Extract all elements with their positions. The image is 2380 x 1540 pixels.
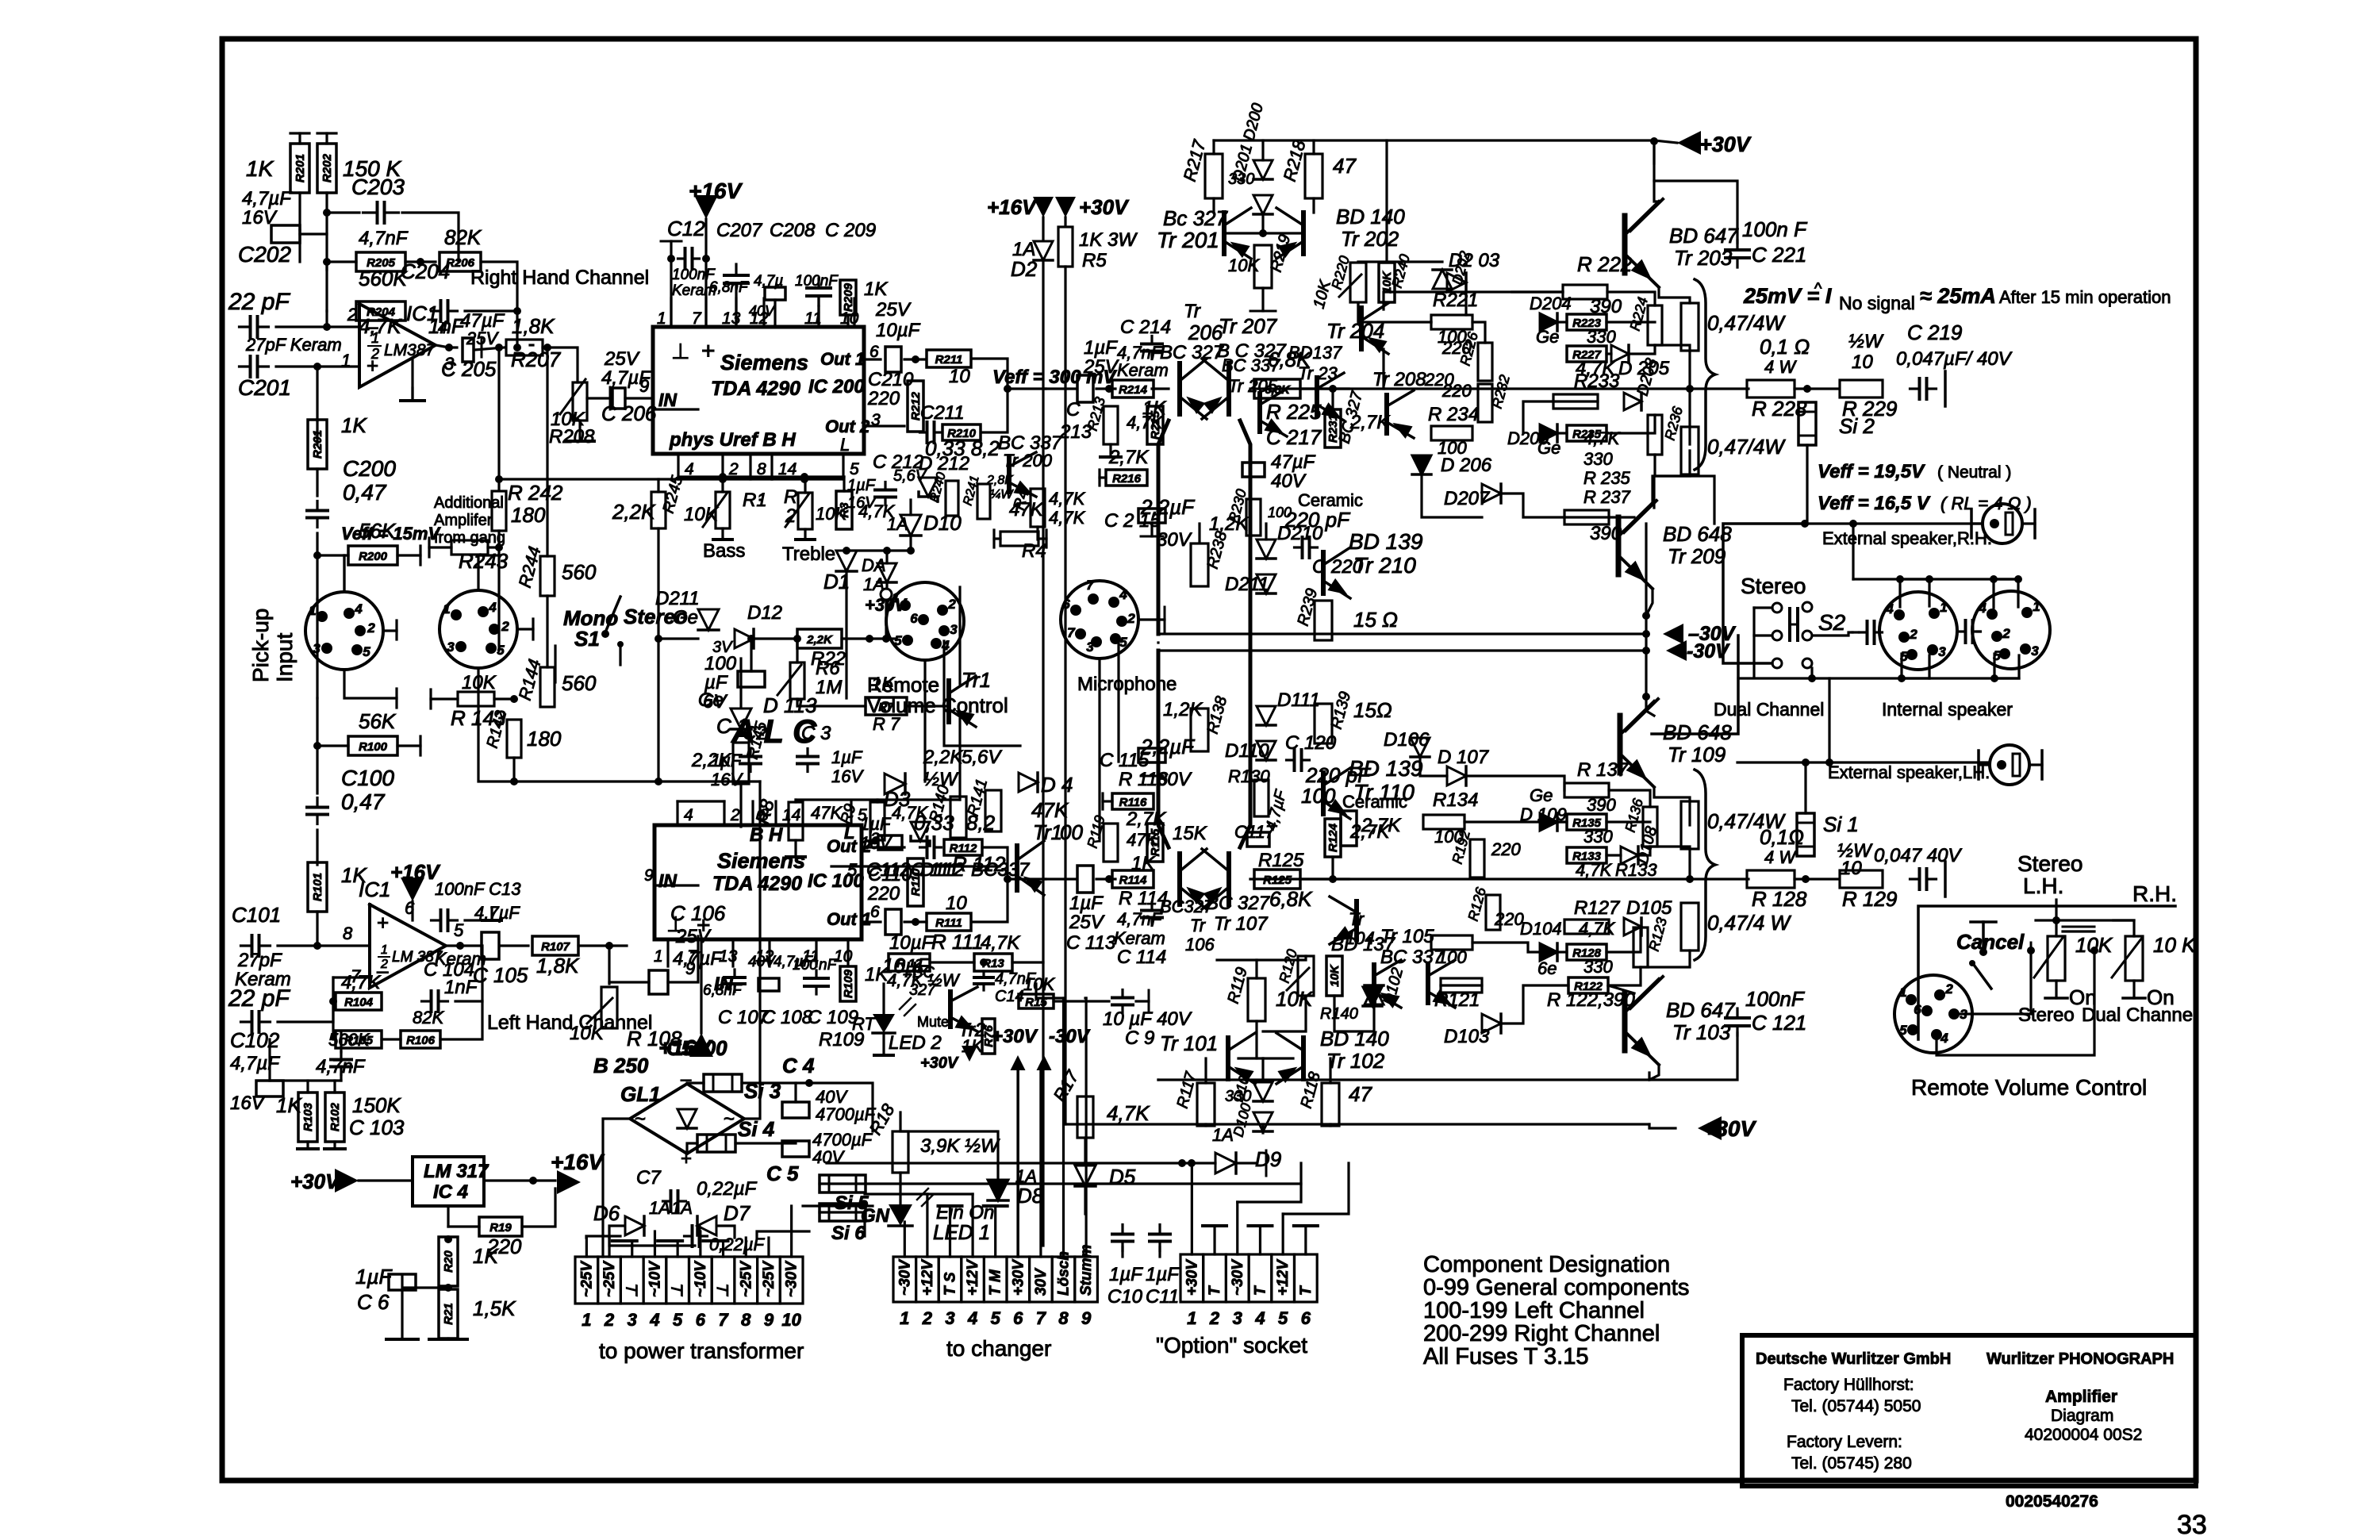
- label On R: [2147, 985, 2175, 1009]
- wire tr202 base: [1312, 198, 1315, 213]
- label 82 112: [966, 811, 996, 835]
- wire R204 left vert: [325, 311, 328, 327]
- diode D9: [1215, 1153, 1236, 1173]
- wire tr210 wires: [1265, 524, 1267, 540]
- label 1K r109: [865, 964, 889, 985]
- label L 200: [840, 435, 850, 455]
- svg-text:7: 7: [687, 947, 697, 966]
- label C203: [351, 175, 405, 199]
- svg-text:R109: R109: [842, 969, 855, 998]
- power -30V b: [1666, 640, 1687, 661]
- label R243: [459, 549, 509, 573]
- label 47K r8: [811, 803, 843, 823]
- svg-text:~: ~: [724, 1108, 735, 1130]
- svg-text:7: 7: [1086, 578, 1095, 593]
- svg-text:4: 4: [941, 638, 950, 653]
- wire tr204 e: [1382, 349, 1384, 389]
- svg-text:2: 2: [947, 597, 956, 612]
- svg-text:+: +: [701, 338, 716, 364]
- connector internal speaker B: [1972, 591, 2050, 669]
- label IC100 pinb 1: [654, 947, 663, 966]
- svg-text:4: 4: [967, 1308, 977, 1328]
- IC200 plus sym: [701, 338, 716, 364]
- wire d1 down: [845, 571, 847, 698]
- wire col to C100: [316, 746, 318, 793]
- label 47K half w: [887, 970, 961, 990]
- label R229 t: [1842, 397, 1897, 421]
- label 100nF 221: [1742, 217, 1808, 241]
- wire power strip stub 6: [699, 1231, 701, 1257]
- label 100 134: [1434, 827, 1464, 847]
- wire lh mid rail: [1157, 1078, 1159, 1081]
- capacitor C6: [389, 1274, 416, 1290]
- junction lh spk: [1825, 758, 1833, 766]
- wire pickup top: [343, 555, 345, 592]
- wire r116 tick: [1103, 800, 1112, 802]
- ground R208 pot: [566, 440, 594, 443]
- svg-text:Siemens: Siemens: [720, 351, 808, 374]
- label C10 1uF: [1109, 1264, 1143, 1285]
- svg-text:R201: R201: [311, 430, 324, 459]
- label C211: [920, 402, 965, 424]
- resistor R119b: [1104, 824, 1118, 862]
- svg-text:0,47/4W: 0,47/4W: [1707, 435, 1786, 459]
- svg-text:R243: R243: [459, 549, 509, 573]
- junction r2 bus: [800, 473, 808, 481]
- resistor R235: [1567, 425, 1606, 441]
- label Tr103: [1672, 1020, 1731, 1044]
- wire mic out: [1138, 618, 1165, 620]
- svg-text:C 5: C 5: [766, 1162, 799, 1185]
- resistor R7: [866, 697, 907, 715]
- wire d4 chain: [885, 551, 888, 563]
- svg-text:GL1: GL1: [620, 1082, 661, 1106]
- svg-text:10 K: 10 K: [2153, 933, 2197, 957]
- wire changer strip stub 4: [971, 1194, 973, 1257]
- label C101: [232, 903, 281, 927]
- label 1K r214: [1142, 397, 1166, 419]
- diode D204: [1540, 313, 1557, 331]
- ground R102: [324, 1147, 345, 1150]
- label R100 56K: [359, 709, 397, 733]
- label BC337 105: [1380, 947, 1445, 968]
- label IC200 pin 10: [840, 309, 859, 328]
- label R2b: [785, 505, 796, 527]
- resistor R244: [540, 556, 555, 596]
- svg-text:R201: R201: [294, 154, 307, 182]
- svg-text:330: 330: [1587, 327, 1616, 347]
- wire r112 right: [982, 847, 1008, 879]
- label Si1: [1823, 812, 1859, 836]
- label C220: [1312, 556, 1364, 578]
- resistor R107: [532, 936, 578, 955]
- label R202 value: [343, 156, 401, 181]
- label C114: [1117, 947, 1166, 968]
- label Tr202 t: [1341, 227, 1399, 251]
- label BD647 203: [1669, 224, 1739, 248]
- svg-text:9: 9: [644, 866, 654, 885]
- svg-text:47: 47: [1333, 154, 1357, 178]
- label Veff 15mV: [341, 524, 441, 543]
- tick R216: [1098, 470, 1100, 486]
- wire R102 bot: [333, 1142, 336, 1149]
- label R112 t: [952, 852, 1006, 876]
- wire spk B pins bot: [1994, 654, 2019, 678]
- wire R101 down: [316, 912, 318, 946]
- diode D207: [1482, 484, 1501, 503]
- capacitor C211: [920, 422, 942, 443]
- label Tr105: [1380, 926, 1434, 947]
- svg-text:4,7µF: 4,7µF: [230, 1053, 280, 1074]
- tick C12: [661, 240, 681, 243]
- svg-text:Tr 110: Tr 110: [1353, 780, 1415, 805]
- resistor R108 pot: [601, 987, 617, 1028]
- wire r8 r9 bus: [796, 798, 960, 801]
- svg-text:180: 180: [511, 503, 546, 527]
- label S2: [1818, 610, 1846, 635]
- jack external speaker RH: [1971, 504, 2035, 543]
- ground R1: [713, 538, 732, 540]
- label R8: [752, 797, 779, 826]
- label pin8 t: [343, 924, 353, 943]
- label R119t: [1225, 966, 1251, 1005]
- caption external speaker rh: [1822, 528, 1992, 548]
- transistor Tr210: [1323, 547, 1351, 601]
- diode D210: [1257, 540, 1276, 559]
- label half w 129: [1837, 840, 1873, 862]
- label pin5: [454, 920, 464, 940]
- svg-text:1: 1: [309, 603, 316, 618]
- label R136: [1622, 796, 1647, 834]
- resistor R143: [458, 692, 494, 706]
- wire IC100 bottom pin 1: [666, 939, 669, 966]
- junction d1 bus: [843, 547, 850, 555]
- wire c210 r211: [904, 358, 926, 360]
- label 1K r114: [1131, 853, 1155, 874]
- label 10K r2: [816, 504, 847, 524]
- label 390 222: [1590, 296, 1622, 317]
- svg-text:1,8K: 1,8K: [536, 954, 580, 977]
- label 22pF: [228, 289, 290, 315]
- wire C103 down: [340, 1074, 342, 1081]
- wire IC200 pin bus2: [772, 478, 843, 480]
- wire IC200 top pin 12: [762, 298, 765, 327]
- svg-text:4: 4: [684, 806, 693, 824]
- title block box: [1742, 1335, 2196, 1486]
- junction r231: [1329, 385, 1337, 393]
- label 220pF up: [1284, 508, 1351, 532]
- wire r135 chain: [1557, 820, 1567, 823]
- svg-text:R101: R101: [311, 873, 324, 901]
- junction n30: [882, 635, 890, 643]
- svg-text:T: T: [1252, 1285, 1269, 1296]
- label C1: [716, 714, 748, 738]
- junction spk b: [1925, 575, 1933, 583]
- svg-text:100n F: 100n F: [1742, 217, 1808, 241]
- transistor Tr105: [1428, 960, 1456, 1012]
- svg-text:B 250: B 250: [593, 1054, 649, 1077]
- pot arrow R108: [587, 998, 612, 1023]
- wire rail2: [820, 1163, 1301, 1184]
- label 10uF r12: [889, 932, 935, 954]
- svg-text:~25V: ~25V: [738, 1261, 754, 1297]
- transistor Tr208: [1387, 390, 1414, 439]
- jack external speaker LH: [1979, 745, 2042, 785]
- IC200 box: [653, 327, 864, 454]
- junction v3: [1642, 647, 1650, 655]
- capacitor C109: [804, 970, 828, 994]
- svg-text:D 107: D 107: [1438, 747, 1490, 768]
- gnd bar power 7: [704, 1239, 728, 1242]
- label R205 value 4,7nF: [359, 228, 409, 249]
- svg-text:Dual Channel: Dual Channel: [1714, 699, 1824, 720]
- label R233: [1574, 371, 1620, 392]
- resistor R134: [1423, 815, 1464, 829]
- capacitor C10: [1112, 1225, 1133, 1251]
- svg-text:1A: 1A: [649, 1198, 670, 1218]
- resistor R1 pot: [716, 492, 730, 528]
- label BC337 tr100: [971, 859, 1031, 881]
- svg-text:TDA 4290: TDA 4290: [711, 378, 800, 400]
- caption rh pot: [2132, 881, 2177, 906]
- capacitor C203: [363, 202, 399, 223]
- svg-text:1: 1: [900, 1308, 909, 1328]
- resistor R104: [336, 993, 382, 1010]
- label 100 dn: [1301, 784, 1336, 808]
- svg-text:TDA 4290: TDA 4290: [712, 873, 802, 895]
- svg-text:Amplifier: Amplifier: [2045, 1388, 2117, 1406]
- label D108 t: [1634, 824, 1661, 866]
- doc number: [2006, 1492, 2098, 1511]
- svg-text:2: 2: [2002, 626, 2010, 641]
- label 68K 125: [1269, 887, 1313, 911]
- svg-text:Component Designation: Component Designation: [1423, 1252, 1670, 1277]
- label LM387: [384, 341, 436, 359]
- svg-text:4 W: 4 W: [1764, 357, 1797, 377]
- label R18: [866, 1100, 899, 1138]
- resistor R228v 047: [1681, 303, 1699, 351]
- svg-text:5: 5: [1278, 1308, 1288, 1328]
- label C205 25V: [466, 328, 499, 348]
- svg-text:8: 8: [1058, 1308, 1069, 1328]
- junction c205 col: [495, 344, 503, 351]
- svg-text:1K: 1K: [871, 674, 895, 695]
- svg-text:R 225: R 225: [1266, 400, 1322, 424]
- junction c113: [1105, 875, 1113, 883]
- label R101 1K: [341, 863, 367, 887]
- wire r4 tickr: [1038, 537, 1046, 540]
- svg-text:+30V: +30V: [992, 1026, 1038, 1047]
- resistor R203: [308, 420, 327, 469]
- wire r221 left: [1430, 321, 1432, 323]
- wire c112 row: [831, 865, 1000, 867]
- label BC327 106: [1160, 897, 1214, 916]
- wire to LM317: [359, 1179, 413, 1181]
- capacitor C101: [241, 935, 271, 956]
- label D210: [1277, 523, 1323, 544]
- capacitor C215: [1138, 509, 1165, 523]
- wire treble top: [804, 477, 806, 493]
- label 47K r4c: [1009, 499, 1044, 520]
- label R208: [549, 426, 595, 447]
- resistor R240b: [946, 481, 958, 516]
- svg-text:Tr 101: Tr 101: [1160, 1031, 1218, 1055]
- label +30V mid tap: [992, 1026, 1038, 1047]
- svg-text:+: +: [377, 911, 389, 935]
- wire alc bus2: [657, 639, 659, 782]
- wire r18 top: [900, 1112, 998, 1179]
- junction pin bus a: [719, 475, 727, 483]
- svg-text:S2: S2: [1818, 610, 1846, 635]
- label Tr204: [1326, 319, 1384, 343]
- label IC100 pinb 11: [802, 947, 820, 966]
- wire power strip stub 4: [654, 1231, 656, 1257]
- svg-text:5: 5: [1899, 1023, 1907, 1038]
- svg-text:4,7µ: 4,7µ: [754, 273, 783, 290]
- regulator LM317 IC4 box: [413, 1157, 484, 1206]
- svg-text:IC1: IC1: [406, 301, 438, 325]
- wire tr106 collector: [1158, 651, 1169, 847]
- label half LM387b: [380, 958, 388, 971]
- svg-text:6: 6: [910, 611, 918, 626]
- resistor R129: [1840, 870, 1883, 888]
- label R228 t: [1752, 397, 1807, 421]
- wire c1 chain: [750, 639, 752, 671]
- wire s2 left2: [1754, 634, 1772, 636]
- wire r117 rail: [1204, 1124, 1207, 1126]
- label C5000: [666, 1036, 727, 1060]
- svg-text:5: 5: [454, 920, 464, 940]
- svg-text:+30V: +30V: [1079, 195, 1130, 219]
- label R133 t: [1615, 860, 1657, 880]
- wire r134 row: [1464, 820, 1564, 823]
- svg-text:6e: 6e: [1537, 958, 1557, 978]
- svg-text:LM 317: LM 317: [424, 1161, 489, 1182]
- label C5: [766, 1162, 799, 1185]
- label 330 235: [1583, 449, 1613, 469]
- resistor R237: [1564, 510, 1609, 524]
- resistor R240r: [1379, 263, 1395, 302]
- label R143 10K: [462, 672, 497, 693]
- capacitor C210: [885, 347, 901, 372]
- connector remote volume control: [886, 582, 964, 660]
- svg-text:R130: R130: [1228, 766, 1270, 786]
- label 15ohm b: [1353, 698, 1392, 722]
- resistor R105: [336, 1031, 382, 1048]
- svg-text:47µF: 47µF: [1271, 451, 1316, 473]
- wire upper mirror bus: [1217, 958, 1257, 961]
- junction v4: [1642, 693, 1650, 701]
- svg-text:5: 5: [991, 1308, 1001, 1328]
- label 10K R208: [551, 409, 585, 430]
- label R142: [484, 709, 511, 750]
- resistor R133: [1567, 847, 1606, 863]
- resistor R211: [927, 350, 971, 367]
- svg-text:D105: D105: [1626, 897, 1672, 919]
- svg-text:⊥: ⊥: [716, 1284, 732, 1297]
- svg-text:1µF: 1µF: [1084, 337, 1118, 359]
- power transistor Tr103 BD647: [1625, 977, 1663, 1065]
- label C4: [782, 1054, 815, 1077]
- wire treble bottom: [804, 529, 806, 540]
- label BC tr2: [912, 964, 935, 981]
- wire top input col: [298, 230, 301, 262]
- label R241: [961, 474, 981, 507]
- label D101 t: [1230, 1066, 1254, 1104]
- svg-text:4,7K: 4,7K: [1576, 860, 1613, 880]
- svg-text:~30V: ~30V: [784, 1261, 800, 1297]
- label R142 180: [527, 727, 562, 751]
- svg-text:1µF: 1µF: [355, 1265, 393, 1288]
- svg-text:1,5K: 1,5K: [473, 1296, 516, 1320]
- wire d206 link: [1422, 474, 1482, 517]
- op-amp IC1b minus: [377, 958, 389, 982]
- dual contact: [2090, 947, 2098, 954]
- label D208: [1634, 356, 1661, 397]
- svg-text:Tr 209: Tr 209: [1668, 544, 1725, 568]
- label 40V 208: [749, 303, 776, 319]
- label R20 1K: [473, 1244, 499, 1268]
- svg-text:C: C: [1066, 399, 1081, 421]
- junction 047 out: [1686, 385, 1694, 393]
- svg-text:40V: 40V: [1271, 470, 1307, 492]
- svg-text:0,22µF: 0,22µF: [697, 1178, 758, 1200]
- transistor Tr106: [1180, 849, 1207, 909]
- label 47K r4: [1049, 489, 1086, 509]
- svg-text:56K: 56K: [359, 709, 397, 733]
- label R140m: [927, 783, 954, 824]
- transistor Tr205: [1260, 389, 1288, 440]
- wire R20-R21: [447, 1286, 449, 1289]
- wire IC200 top pin 11: [817, 298, 820, 327]
- wire r235 d207: [1606, 415, 1655, 433]
- tick C206: [609, 387, 612, 409]
- label C102 47uF: [230, 1053, 280, 1074]
- label +30V top: [1699, 132, 1752, 156]
- label Cancel: [1956, 930, 2025, 954]
- capacitor C9b: [685, 1226, 708, 1246]
- label IC200: [808, 376, 865, 397]
- wire d6 down: [609, 1226, 624, 1238]
- svg-text:R125: R125: [1258, 850, 1304, 871]
- zener D212: [919, 478, 938, 501]
- wire s2 wire: [1812, 632, 1852, 636]
- label 47nF c14: [995, 970, 1037, 988]
- resistor R76: [982, 1019, 996, 1054]
- label 220 226: [1441, 338, 1472, 358]
- resistor R225: [1254, 379, 1300, 398]
- svg-text:5: 5: [363, 644, 370, 659]
- svg-text:R 229: R 229: [1842, 397, 1897, 421]
- label 4w b: [1764, 847, 1797, 867]
- svg-text:47: 47: [1349, 1082, 1372, 1106]
- tick R243: [428, 538, 430, 557]
- wire veff wire: [343, 555, 345, 592]
- caption left hand channel: [487, 1012, 652, 1034]
- label 10uF 210: [876, 320, 921, 341]
- power -30V mid tap: [1037, 1055, 1052, 1070]
- capacitor C207: [724, 264, 748, 294]
- svg-text:Tr1: Tr1: [1033, 820, 1062, 844]
- wire s2 bot contact: [1810, 668, 1813, 678]
- wire spk A pins top: [1900, 579, 1929, 607]
- svg-text:40V: 40V: [748, 954, 777, 970]
- junction alc: [654, 778, 662, 785]
- junction si1: [1802, 875, 1810, 883]
- ground R8: [786, 855, 805, 858]
- ground R103: [297, 1147, 318, 1150]
- label R121: [1434, 989, 1480, 1011]
